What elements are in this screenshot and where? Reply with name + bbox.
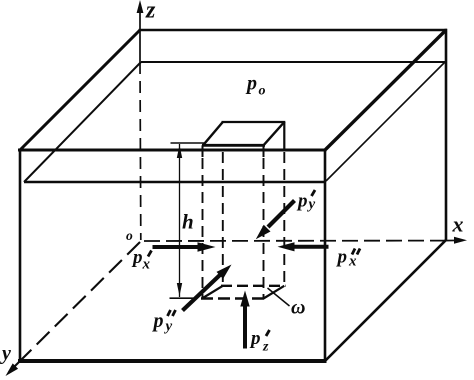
svg-text:y: y <box>164 319 173 335</box>
svg-text:p: p <box>296 191 308 212</box>
svg-text:x: x <box>452 212 464 237</box>
label omega <box>291 297 305 319</box>
label z <box>145 0 156 24</box>
tank bottom-right receding edge <box>325 240 446 361</box>
label p'y <box>296 190 316 213</box>
element bottom face left receding edge <box>202 286 223 299</box>
force arrow p''y <box>183 265 232 311</box>
tank top-left receding edge <box>20 30 140 150</box>
label p''x <box>336 247 361 270</box>
tank front-top edge <box>18 149 327 152</box>
label o (origin) <box>126 228 133 243</box>
prism back-right vertical edge (above surface) <box>283 122 285 151</box>
svg-text:y: y <box>0 343 11 365</box>
element bottom face right receding edge <box>264 286 285 299</box>
svg-text:z: z <box>145 0 156 24</box>
svg-text:x: x <box>142 257 151 273</box>
label y <box>0 343 11 365</box>
svg-text:x: x <box>348 254 357 270</box>
force arrow p'y <box>256 201 295 240</box>
tank back-right edge <box>445 29 448 241</box>
prism cross-section left receding edge <box>203 122 223 145</box>
svg-text:ω: ω <box>291 297 305 319</box>
prism back-left vertical edge <box>222 152 224 286</box>
prism front-right vertical edge <box>263 145 265 298</box>
label p0 <box>245 73 266 99</box>
label x <box>452 212 464 237</box>
omega leader line <box>268 288 290 306</box>
water surface front edge <box>24 181 326 184</box>
tank front-right edge <box>324 149 327 363</box>
prism cross-section front edge <box>202 144 265 147</box>
svg-text:o: o <box>126 228 133 243</box>
svg-text:p: p <box>336 247 348 268</box>
label p'x <box>131 247 152 273</box>
water surface back edge <box>141 61 445 63</box>
y-axis <box>6 242 141 376</box>
label p''y <box>152 310 176 335</box>
tank front-bottom edge <box>18 359 327 363</box>
svg-text:h: h <box>182 210 194 234</box>
water surface left receding edge <box>24 62 141 182</box>
tank top-right receding edge <box>325 30 446 150</box>
tank front-left edge <box>19 149 22 363</box>
svg-text:p: p <box>249 328 261 349</box>
svg-text:p: p <box>131 247 143 268</box>
svg-text:p: p <box>152 310 164 332</box>
svg-text:y: y <box>307 197 316 213</box>
element bottom face back edge <box>221 285 286 287</box>
svg-text:o: o <box>259 84 266 99</box>
svg-text:z: z <box>262 339 269 354</box>
z-axis <box>137 0 144 240</box>
prism cross-section right receding edge <box>264 122 285 145</box>
h dimension line <box>177 144 182 297</box>
element bottom face front edge <box>201 297 266 300</box>
tank back-top edge <box>139 29 447 32</box>
x-axis <box>144 237 467 244</box>
prism cross-section back edge <box>222 121 286 123</box>
force arrow p''x <box>278 242 329 251</box>
h dimension bottom tick <box>170 297 194 299</box>
prism front-left vertical edge <box>202 145 204 298</box>
prism back-right vertical edge <box>283 152 285 286</box>
force arrow p'z <box>240 291 249 349</box>
svg-text:p: p <box>245 73 257 95</box>
water surface right receding edge <box>326 62 445 181</box>
h dimension top tick <box>171 142 205 144</box>
label p'z <box>249 328 270 354</box>
force arrow p'x <box>153 242 216 252</box>
label h <box>182 210 194 234</box>
